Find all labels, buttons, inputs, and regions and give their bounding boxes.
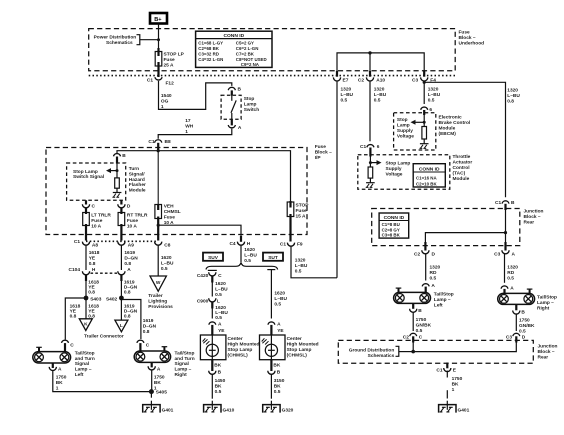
ground G320 [263,401,294,414]
svg-text:Rear: Rear [538,355,549,361]
flasher stop lamp switch signal arrow [73,164,119,181]
svg-text:D: D [127,204,131,210]
connector B flasher module [114,153,127,164]
EBCM internal ground [420,139,429,148]
wire 1750 BK to G401 right [447,371,462,399]
wire 3150 BK to G320 [271,374,284,399]
svg-text:10 A: 10 A [91,224,101,230]
connector C3/D junction block lower [506,333,526,342]
wire 1619 D-GN S402 to L [121,298,137,320]
svg-text:Stop Lamp: Stop Lamp [228,347,253,353]
svg-text:Stop Lamp: Stop Lamp [73,169,98,175]
connector A right lamp [148,366,161,372]
svg-text:G320: G320 [282,407,294,413]
svg-text:and Turn: and Turn [175,356,195,362]
label Trailer Lighting Provisions [148,293,173,310]
svg-text:1450: 1450 [215,378,226,384]
wire 1618 YE from A8 to C104 [86,245,100,270]
option box SUT [263,253,283,261]
svg-text:0.5: 0.5 [416,328,423,334]
trailer connector terminal L [115,320,128,332]
svg-text:WH: WH [185,124,194,130]
splice S402 [106,296,124,303]
svg-text:Lighting: Lighting [148,298,167,304]
wire 1450 BK to G410 [212,374,225,399]
svg-text:Throttle: Throttle [453,154,471,160]
svg-text:L–BU: L–BU [244,252,257,258]
svg-text:S403: S403 [90,296,102,302]
svg-text:Center: Center [287,336,302,342]
svg-text:A10: A10 [376,77,385,83]
svg-text:0.8: 0.8 [89,261,96,267]
svg-text:A: A [431,283,435,289]
svg-text:C1=16 NA: C1=16 NA [416,176,437,181]
ground G410 [204,401,235,414]
svg-text:CONN ID: CONN ID [223,33,244,39]
svg-text:C1: C1 [148,139,154,145]
svg-text:0.5: 0.5 [215,292,222,298]
connector C1/6 TAC module [360,144,380,157]
wire 1620 L-BU C420 to C900 [212,280,228,298]
CONN ID table junction block rear [379,213,409,238]
TAC internal resistor [368,167,373,178]
svg-text:1620: 1620 [215,281,226,287]
splice S403 [84,296,102,303]
label Center High Mounted Stop Lamp (CHMSL) left [228,336,260,359]
CONN ID table TAC [413,164,445,187]
connector C4/H [229,236,250,247]
svg-text:1: 1 [452,387,455,393]
svg-text:YE: YE [277,328,284,334]
svg-text:1620: 1620 [244,247,255,253]
svg-text:10 A: 10 A [127,224,137,230]
svg-text:Fuse: Fuse [459,30,471,36]
svg-text:C2: C2 [414,251,420,257]
svg-text:C: C [146,342,150,348]
svg-text:RT TRLR: RT TRLR [127,213,148,219]
wire 1540 OG from F12 to stop lamp switch B [159,81,232,110]
junction block internal wires [425,210,507,242]
svg-text:Trailer Connector: Trailer Connector [84,334,124,340]
svg-text:C3=8 BK: C3=8 BK [382,233,401,238]
svg-text:Flasher: Flasher [129,182,146,188]
svg-text:1320: 1320 [295,258,306,264]
svg-text:0.5: 0.5 [341,97,348,103]
svg-text:Tail/Stop: Tail/Stop [175,350,195,356]
svg-text:Stop: Stop [397,117,408,123]
svg-text:Fuse: Fuse [91,218,103,224]
connector C1/E junction block lower [436,363,456,374]
svg-text:RD: RD [507,270,514,276]
svg-text:Signal: Signal [175,361,189,367]
label Tail/Stop Lamp - Left [434,292,454,309]
svg-text:0.8: 0.8 [70,314,77,320]
svg-text:Hazard: Hazard [129,177,145,183]
svg-text:A9: A9 [128,242,134,248]
svg-text:1750: 1750 [416,317,427,323]
svg-text:C: C [419,335,423,341]
svg-text:1: 1 [56,386,59,392]
splice S405 [149,389,167,395]
svg-text:RD: RD [430,270,437,276]
svg-text:D–GN: D–GN [124,256,138,262]
svg-text:C3=32 RD: C3=32 RD [198,51,219,56]
svg-text:0.5: 0.5 [519,329,526,335]
svg-text:0.5: 0.5 [274,389,281,395]
svg-text:0.5: 0.5 [507,276,514,282]
connector C2/A10 underhood [358,71,386,83]
svg-text:L–BU: L–BU [274,296,287,302]
svg-text:1320: 1320 [374,86,385,92]
wire 1320 L-BU 0.5 from E7 down [337,81,354,278]
wire 1619 D-GN S402 to right lamp C [121,300,156,340]
svg-text:BK: BK [154,380,161,386]
svg-text:Trailer: Trailer [148,293,163,299]
svg-text:B: B [122,153,126,159]
svg-text:and Turn: and Turn [75,356,95,362]
svg-text:L–BU: L–BU [215,287,228,293]
svg-text:B: B [277,370,281,376]
svg-text:1320: 1320 [507,265,518,271]
svg-text:C4: C4 [229,241,235,247]
svg-text:BK: BK [56,380,63,386]
svg-text:C: C [70,342,74,348]
svg-text:0.5: 0.5 [428,97,435,103]
svg-text:Power Distribution: Power Distribution [94,35,137,41]
EBCM dashed box [394,113,436,150]
svg-text:VEH: VEH [164,204,174,210]
svg-text:C: C [218,273,222,279]
svg-text:1: 1 [185,129,188,135]
svg-text:0.8: 0.8 [507,98,514,104]
svg-text:CONN ID: CONN ID [419,166,440,172]
connector A right CHMSL [268,321,284,335]
svg-text:C1: C1 [360,144,366,150]
label Tail/Stop and Turn Signal Lamp - Left [75,350,95,378]
connector C104 pin H [69,267,96,281]
svg-text:C900: C900 [197,299,209,305]
label Turn Signal/Hazard Flasher Module [129,166,146,193]
svg-text:YE: YE [218,328,225,334]
svg-text:C2=10 BK: C2=10 BK [416,181,437,186]
svg-text:C: C [92,204,96,210]
tail/stop lamp right [498,289,535,310]
svg-text:(EBCM): (EBCM) [439,131,457,137]
svg-text:Left: Left [75,372,84,378]
junction block rear upper dashed box [372,209,520,246]
svg-text:1320: 1320 [428,86,439,92]
svg-text:Left: Left [434,303,443,309]
svg-text:Block –: Block – [538,349,555,355]
svg-text:17: 17 [185,118,191,124]
svg-text:H: H [92,267,96,273]
svg-text:Lamp –: Lamp – [175,367,192,373]
wire 1750 GN/BK right to C3/D [516,314,535,335]
wire label 1320 L-BU 0.5 (F9) [295,258,308,275]
svg-text:0.5: 0.5 [215,389,222,395]
svg-text:STOP: STOP [296,203,310,209]
connector A9 [118,242,134,249]
svg-text:C3: C3 [506,335,512,341]
svg-text:Signal/: Signal/ [129,172,145,178]
label Tail/Stop Lamp - Right [537,294,557,311]
svg-text:C420: C420 [197,273,209,279]
svg-text:Brake Control: Brake Control [439,120,471,126]
svg-text:C1: C1 [74,239,80,245]
svg-text:Lamp –: Lamp – [75,367,92,373]
svg-text:25 A: 25 A [164,63,174,69]
svg-text:Fuse: Fuse [127,218,139,224]
svg-text:1: 1 [161,104,164,110]
connector A tail/stop lamp left [422,283,435,293]
wire 17 WH from switch A to C1/B8 [158,118,232,139]
svg-text:1620: 1620 [274,291,285,297]
svg-text:Control: Control [453,165,470,171]
svg-text:GN/BK: GN/BK [416,322,432,328]
svg-text:0.8: 0.8 [124,314,131,320]
svg-text:D: D [432,251,436,257]
svg-text:BK: BK [452,381,459,387]
svg-text:Module: Module [439,125,456,131]
label Junction Block - Rear (upper) [524,209,544,226]
svg-text:High Mounted: High Mounted [287,342,319,348]
svg-text:1540: 1540 [161,93,172,99]
svg-text:C2: C2 [358,77,364,83]
fuse LT TRLR 10 A [83,208,112,241]
svg-text:1619: 1619 [124,250,135,256]
svg-text:L–BU: L–BU [295,263,308,269]
turn signal hazard flasher module dashed box [67,163,126,200]
tail/stop lamp left [394,288,431,309]
svg-text:C2=68 BK: C2=68 BK [198,46,219,51]
svg-text:Lamp: Lamp [397,123,410,129]
svg-text:STOP LP: STOP LP [164,52,185,58]
wire branch F4 to junction block right [424,82,505,197]
connector pin 6 EBCM [421,107,433,115]
harness split brace [206,262,278,269]
connector C1/A8 [74,239,99,248]
svg-text:A: A [510,285,514,291]
svg-text:Provisions: Provisions [148,304,173,310]
connector C1/B8 fuse block I/P [148,139,171,149]
label Fuse Block - Underhood [459,30,485,47]
fuse RT TRLR 10 A [118,208,148,241]
svg-text:(CHMSL): (CHMSL) [228,353,249,359]
svg-text:0.5: 0.5 [244,258,251,264]
svg-text:0.8: 0.8 [88,289,95,295]
svg-text:Center: Center [228,336,243,342]
center high mounted stop lamp CHMSL left [200,335,226,360]
tail/stop and turn signal lamp left [33,347,71,368]
svg-text:W: W [156,280,161,286]
junction block lower internal bus [411,343,516,354]
connector C left tail/stop turn lamp [62,340,75,352]
svg-text:1619: 1619 [143,318,154,324]
wire label 1320 L-BU 0.8 [507,87,520,104]
svg-text:L: L [120,323,123,329]
connector D flasher output [118,200,131,209]
EBCM stop lamp supply voltage arrow [397,115,426,140]
label Fuse Block - I/P [315,144,332,161]
svg-text:CONN ID: CONN ID [384,215,405,221]
svg-text:OG: OG [161,99,169,105]
svg-text:Junction: Junction [524,209,544,215]
svg-text:15 A: 15 A [296,214,306,220]
connector C2/D junction block [414,242,435,257]
svg-text:0.5: 0.5 [215,315,222,321]
svg-text:1750: 1750 [56,375,67,381]
label Junction Block - Rear (lower) [538,344,558,361]
svg-text:Tail/Stop: Tail/Stop [434,292,454,298]
svg-text:C8=NOT USED: C8=NOT USED [236,57,267,62]
svg-text:G401: G401 [162,407,174,413]
svg-text:Supply: Supply [386,166,402,172]
fuse block underhood dashed box [89,29,456,71]
TAC stop lamp supply voltage arrow [369,157,410,178]
svg-text:Actuator: Actuator [453,160,473,166]
fuse VEH CHMSL 10 A [155,151,181,241]
connector A left CHMSL [209,321,225,335]
svg-text:Module: Module [129,187,146,193]
wire 1320 RD to left tail/stop lamp [426,254,441,282]
svg-text:Stop Lamp: Stop Lamp [386,160,411,166]
svg-text:B: B [521,310,525,316]
wire 1618 YE S403 to left lamp C [65,298,86,340]
svg-text:1750: 1750 [154,375,165,381]
svg-text:0.5: 0.5 [430,276,437,282]
fuse block I/P dashed box [46,148,307,235]
wire 1619 D-GN from C104 to S402 [121,279,137,298]
svg-text:G401: G401 [458,407,470,413]
svg-text:1750: 1750 [452,376,463,382]
svg-text:GN/BK: GN/BK [519,323,535,329]
wire 1320 RD to right tail/stop lamp [505,254,519,283]
flasher internal ground [112,188,121,197]
wire 1619 D-GN from A9 to C104 [121,245,138,270]
svg-text:Tail/Stop: Tail/Stop [75,350,95,356]
connector B of stop lamp switch [228,87,241,96]
svg-text:B: B [218,370,222,376]
svg-text:BK: BK [273,363,280,369]
svg-text:YE: YE [89,256,96,262]
wire 1320 L-BU 0.5 from F4 to EBCM [423,81,441,104]
svg-text:B: B [511,200,515,206]
wire 1750 GN/BK left to C2/C [413,312,431,334]
battery feed B+ terminal [150,13,167,24]
connector C8 [155,242,171,249]
label Electronic Brake Control Module (EBCM) [439,114,471,137]
svg-text:6: 6 [377,144,380,150]
svg-text:H: H [247,241,251,247]
svg-text:Rear: Rear [524,220,535,226]
svg-text:High Mounted: High Mounted [228,342,260,348]
connector B tail/stop lamp left [410,308,423,314]
ground G401 right [439,401,470,414]
I/P internal bus wire [117,149,291,202]
wire 1320 L-BU 0.5 from A10 to TAC [370,81,387,142]
svg-text:D: D [522,335,526,341]
wire 1620 L-BU C900 to CHMSL A [212,305,228,321]
connector C1/B junction block rear [495,200,515,210]
svg-text:C1: C1 [147,78,153,84]
svg-text:1320: 1320 [341,86,352,92]
svg-text:BK: BK [215,384,222,390]
svg-text:E: E [453,367,457,373]
svg-text:Fuse: Fuse [164,215,176,221]
svg-text:Tail/Stop: Tail/Stop [537,294,557,300]
svg-text:Lamp –: Lamp – [434,297,451,303]
svg-text:LT TRLR: LT TRLR [91,213,111,219]
svg-text:I/P: I/P [315,155,322,161]
connector C420 pin C [197,270,222,282]
connector C3/F4 underhood [412,71,436,83]
svg-text:A: A [277,321,281,327]
svg-text:Block –: Block – [315,150,332,156]
svg-text:1620: 1620 [161,255,172,261]
connector E7 underhood [333,71,348,83]
svg-text:Electronic: Electronic [439,114,463,120]
svg-text:B: B [418,308,422,314]
svg-text:Schematics: Schematics [106,40,133,46]
svg-text:Module: Module [453,176,470,182]
svg-text:Ground Distribution: Ground Distribution [349,348,395,354]
svg-text:C3: C3 [412,77,418,83]
svg-text:C104: C104 [69,267,81,273]
svg-text:B8: B8 [165,139,171,145]
svg-text:1750: 1750 [519,318,530,324]
svg-text:A: A [58,366,62,372]
svg-text:Supply: Supply [397,128,413,134]
svg-text:Switch: Switch [244,107,260,113]
svg-text:Right: Right [175,372,188,378]
tail/stop and turn signal lamp right [134,347,170,368]
fuse STOP LP 25 A [155,48,184,77]
connector C1/F12 underhood fuse block [147,77,174,86]
svg-text:0.5: 0.5 [274,302,281,308]
wire 1620 L-BU 0.5 from C4/H to split [241,245,257,264]
svg-text:C3: C3 [494,251,500,257]
underhood internal bus wire [337,51,424,75]
wire B+ to STOP LP fuse [158,24,160,50]
svg-text:Fuse: Fuse [164,57,176,63]
svg-text:0.8: 0.8 [124,289,131,295]
svg-text:0.5: 0.5 [295,269,302,275]
svg-text:L–BU: L–BU [341,92,354,98]
svg-text:3150: 3150 [274,378,285,384]
svg-text:Switch Signal: Switch Signal [73,174,104,180]
junction block rear lower dashed box [338,340,533,363]
wire CHMSL fuse to C4/H branch [157,224,241,241]
stop lamp switch contacts and blade [231,95,236,119]
svg-text:C6=2 L-GN: C6=2 L-GN [236,46,259,51]
svg-text:Block –: Block – [459,35,476,41]
svg-text:1618: 1618 [89,250,100,256]
label Tail/Stop and Turn Signal Lamp - Right [175,350,195,378]
connector C2/C junction block lower [403,333,423,342]
svg-text:E7: E7 [343,77,349,83]
svg-text:A: A [218,321,222,327]
svg-text:B: B [238,87,242,93]
connector C1/F9 [280,241,303,247]
svg-text:C8: C8 [164,242,170,248]
ground G401 left [143,394,174,413]
label Center High Mounted Stop Lamp (CHMSL) right [287,336,319,359]
CONN ID table underhood [196,31,272,67]
svg-text:S405: S405 [156,390,168,396]
svg-text:L–BU: L–BU [507,93,520,99]
svg-text:C1=68 L-GY: C1=68 L-GY [198,41,223,46]
svg-text:Lamp: Lamp [244,102,257,108]
